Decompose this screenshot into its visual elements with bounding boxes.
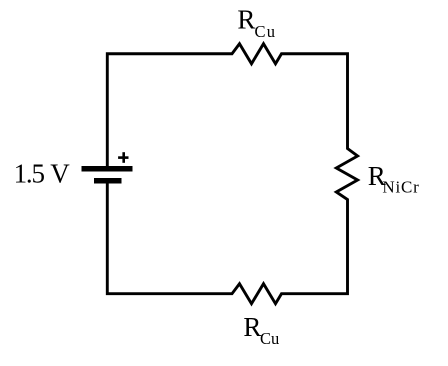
svg-text:Cu: Cu xyxy=(260,329,279,348)
svg-text:Cu: Cu xyxy=(255,22,277,41)
svg-text:V: V xyxy=(50,159,70,189)
svg-text:R: R xyxy=(243,312,261,342)
svg-text:1.5: 1.5 xyxy=(14,159,45,189)
svg-text:R: R xyxy=(237,5,255,35)
svg-text:NiCr: NiCr xyxy=(382,178,419,197)
